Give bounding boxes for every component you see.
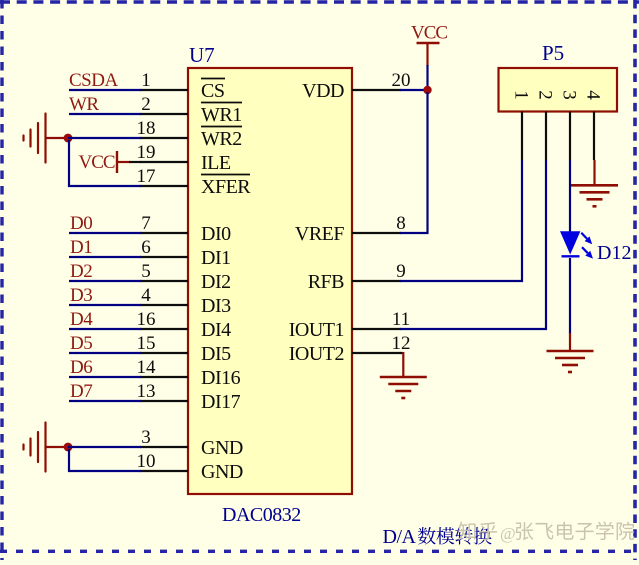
svg-text:XFER: XFER — [201, 176, 251, 198]
svg-text:D5: D5 — [70, 333, 92, 354]
svg-text:DI16: DI16 — [201, 367, 241, 389]
svg-text:5: 5 — [141, 261, 151, 282]
svg-text:DI2: DI2 — [201, 271, 231, 293]
wire D6 to pin — [69, 376, 141, 378]
svg-text:IOUT1: IOUT1 — [289, 319, 344, 341]
pin 6 (DI1) — [140, 237, 231, 269]
svg-text:D6: D6 — [70, 357, 92, 378]
LED D12 — [560, 231, 593, 258]
wire to pin 18 WR2 — [68, 137, 141, 139]
svg-text:3: 3 — [141, 427, 151, 448]
svg-text:1: 1 — [511, 90, 532, 100]
wire D2 to pin — [69, 280, 141, 282]
pin 2 (WR1) — [140, 94, 242, 126]
svg-text:WR1: WR1 — [201, 104, 242, 126]
wire VCC to pin 19 — [129, 161, 141, 163]
wire D1 to pin — [69, 256, 141, 258]
pin 1 (CS) — [140, 70, 225, 102]
svg-text:@: @ — [500, 524, 516, 543]
svg-text:4: 4 — [141, 285, 151, 306]
pin 13 (DI17) — [137, 381, 241, 413]
svg-text:6: 6 — [141, 237, 151, 258]
ground (bottom-left, rotated) — [24, 423, 65, 472]
wire to pin 3 GND — [68, 446, 141, 448]
wire P5.2 to pin 11 IOUT1 — [400, 160, 546, 329]
pin 18 (WR2) — [137, 118, 243, 150]
caption D/A converter — [383, 526, 492, 548]
wire D4 to pin — [69, 328, 141, 330]
svg-text:19: 19 — [137, 142, 156, 163]
svg-text:14: 14 — [137, 357, 157, 378]
svg-text:9: 9 — [396, 261, 406, 282]
ground (IOUT2) — [402, 352, 404, 377]
svg-text:WR2: WR2 — [201, 128, 242, 150]
wire WR to pin 2 — [69, 113, 141, 115]
pin 17 (XFER) — [137, 166, 252, 198]
svg-text:17: 17 — [137, 166, 156, 187]
wire down to pin 17 XFER — [69, 140, 141, 186]
svg-text:DI1: DI1 — [201, 247, 231, 269]
wire P5.3 down to LED — [569, 160, 571, 232]
svg-text:DI3: DI3 — [201, 295, 231, 317]
svg-text:1: 1 — [141, 70, 151, 91]
wire D0 to pin — [69, 232, 141, 234]
svg-text:7: 7 — [141, 213, 151, 234]
pin 10 (GND) — [137, 451, 243, 483]
ground (below LED) — [569, 333, 571, 351]
watermark — [458, 522, 634, 543]
svg-text:4: 4 — [583, 90, 604, 100]
svg-text:11: 11 — [392, 309, 410, 330]
pin 8 (VREF) — [295, 213, 406, 245]
svg-text:D2: D2 — [70, 261, 92, 282]
pin 14 (DI16) — [137, 357, 241, 389]
svg-text:12: 12 — [392, 333, 411, 354]
wire LED to ground — [569, 258, 571, 334]
svg-text:13: 13 — [137, 381, 156, 402]
svg-text:DI17: DI17 — [201, 391, 241, 413]
pin 4 (DI3) — [140, 285, 231, 317]
svg-text:D/A: D/A — [383, 526, 417, 548]
pin 15 (DI5) — [137, 333, 232, 365]
svg-text:U7: U7 — [189, 43, 215, 67]
svg-text:D0: D0 — [70, 213, 92, 234]
svg-text:GND: GND — [201, 437, 243, 459]
pin 16 (DI4) — [137, 309, 232, 341]
pin 3 (GND) — [140, 427, 243, 459]
svg-text:VDD: VDD — [302, 80, 344, 102]
P5 pin 4 — [583, 90, 604, 160]
svg-text:10: 10 — [137, 451, 156, 472]
junction node (ground/WR2/XFER) — [64, 134, 73, 143]
wire pin 20 VDD to node — [400, 89, 428, 91]
P5 pin 3 — [559, 90, 580, 160]
pin 7 (DI0) — [140, 213, 231, 245]
wire VCC down to VDD node — [426, 65, 428, 90]
pin 19 (ILE) — [137, 142, 231, 174]
ground (top-left, rotated) — [24, 114, 65, 163]
svg-text:DI5: DI5 — [201, 343, 231, 365]
svg-text:DI0: DI0 — [201, 223, 231, 245]
svg-text:D3: D3 — [70, 285, 92, 306]
wire D7 to pin — [69, 400, 141, 402]
pin 9 (RFB) — [308, 261, 406, 293]
pin 5 (DI2) — [140, 261, 231, 293]
svg-text:VCC: VCC — [411, 23, 447, 44]
svg-text:15: 15 — [137, 333, 156, 354]
svg-text:DI4: DI4 — [201, 319, 231, 341]
svg-text:8: 8 — [396, 213, 406, 234]
svg-text:D1: D1 — [70, 237, 92, 258]
svg-text:3: 3 — [559, 90, 580, 100]
junction node VDD/VCC — [423, 86, 431, 94]
wire pin 12 IOUT2 to ground — [400, 352, 403, 354]
svg-text:2: 2 — [535, 90, 556, 100]
svg-text:ILE: ILE — [201, 152, 231, 174]
wire CSDA to pin 1 — [69, 89, 141, 91]
svg-text:WR: WR — [69, 94, 99, 115]
P5 pin 1 — [511, 90, 532, 160]
svg-text:P5: P5 — [542, 41, 564, 65]
wire D5 to pin — [69, 352, 141, 354]
connector P5 body — [499, 68, 618, 112]
pin 20 (VDD) — [302, 70, 410, 102]
pin 11 (IOUT1) — [289, 309, 410, 341]
svg-text:2: 2 — [141, 94, 151, 115]
pin 12 (IOUT2) — [289, 333, 411, 365]
svg-text:CS: CS — [201, 80, 224, 102]
svg-text:VCC: VCC — [79, 152, 115, 173]
svg-text:D7: D7 — [70, 381, 92, 402]
svg-text:CSDA: CSDA — [69, 70, 118, 91]
wire P5.1 to pin 9 RFB — [400, 160, 522, 281]
svg-text:18: 18 — [137, 118, 156, 139]
svg-text:IOUT2: IOUT2 — [289, 343, 344, 365]
P5 pin 2 — [535, 90, 556, 160]
svg-text:DAC0832: DAC0832 — [222, 504, 301, 526]
svg-text:D4: D4 — [70, 309, 93, 330]
svg-text:16: 16 — [137, 309, 156, 330]
wire down to pin 10 GND — [69, 449, 141, 471]
wire D3 to pin — [69, 304, 141, 306]
svg-text:GND: GND — [201, 461, 243, 483]
junction node (ground/GND pins) — [64, 443, 73, 452]
svg-text:D12: D12 — [597, 242, 631, 264]
svg-text:RFB: RFB — [308, 271, 344, 293]
IC U7 DAC0832 body — [188, 68, 352, 494]
svg-text:20: 20 — [392, 70, 411, 91]
wire node down to pin 8 VREF — [400, 92, 428, 233]
svg-text:VREF: VREF — [295, 223, 345, 245]
ground (P5 pin 4) — [593, 160, 595, 185]
